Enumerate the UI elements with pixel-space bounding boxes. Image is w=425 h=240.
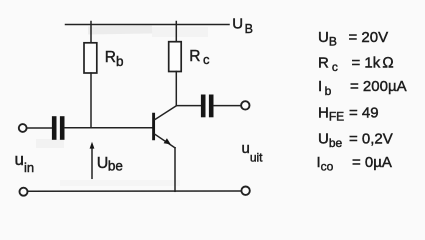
wire: C1 to base of Q1 (node B) (65, 127, 153, 129)
svg-text:Ube: Ube (97, 155, 123, 174)
svg-text:Rc: Rc (189, 48, 210, 67)
wire: bottom common rail (28, 190, 242, 192)
svg-text:= 200µA: = 200µA (350, 78, 407, 95)
svg-text:Ube: Ube (318, 131, 343, 151)
resistor Rc (169, 42, 182, 72)
svg-text:= 0µA: = 0µA (352, 154, 392, 171)
terminal: output (top-right) (241, 101, 249, 109)
svg-text:= 0,2V: = 0,2V (349, 131, 393, 148)
wire: C2 to output terminal (214, 105, 241, 107)
svg-text:Rb: Rb (105, 49, 124, 69)
svg-text:uin: uin (15, 150, 35, 175)
wire: +UB supply rail (66, 24, 230, 26)
wire: Rc to collector node (175, 72, 177, 106)
terminal: bottom-right (241, 187, 249, 195)
resistor Rb (84, 43, 97, 73)
svg-text:= 20V: = 20V (349, 29, 389, 46)
svg-text:HFE: HFE (318, 105, 344, 124)
wire: input terminal to C1 (27, 127, 52, 129)
wire: Rb to base node (90, 73, 92, 128)
svg-text:UB: UB (318, 29, 337, 49)
svg-text:uuit: uuit (242, 140, 264, 165)
svg-text:UB: UB (232, 16, 253, 37)
wire: UB rail to Rb (junction tick) (90, 22, 92, 44)
svg-text:Rc: Rc (318, 55, 338, 75)
svg-text:= 49: = 49 (349, 105, 379, 122)
terminal: input (top-left) (19, 124, 27, 132)
arrow: Ube measurement arrow (90, 142, 95, 179)
capacitor C1 (input coupling) (54, 119, 62, 138)
wire: collector node to C2 (176, 105, 200, 107)
svg-text:Ib: Ib (318, 78, 332, 98)
svg-text:Ico: Ico (317, 154, 334, 174)
svg-text:= 1kΩ: = 1kΩ (352, 55, 394, 72)
transistor Q1 (NPN) (154, 106, 177, 148)
value list: circuit parameters (317, 29, 407, 174)
capacitor C2 (output coupling) (203, 97, 211, 115)
terminal: bottom-left (20, 188, 28, 196)
wire: UB rail to Rc (junction tick) (175, 22, 177, 43)
wire: emitter of Q1 to bottom rail (174, 148, 176, 192)
